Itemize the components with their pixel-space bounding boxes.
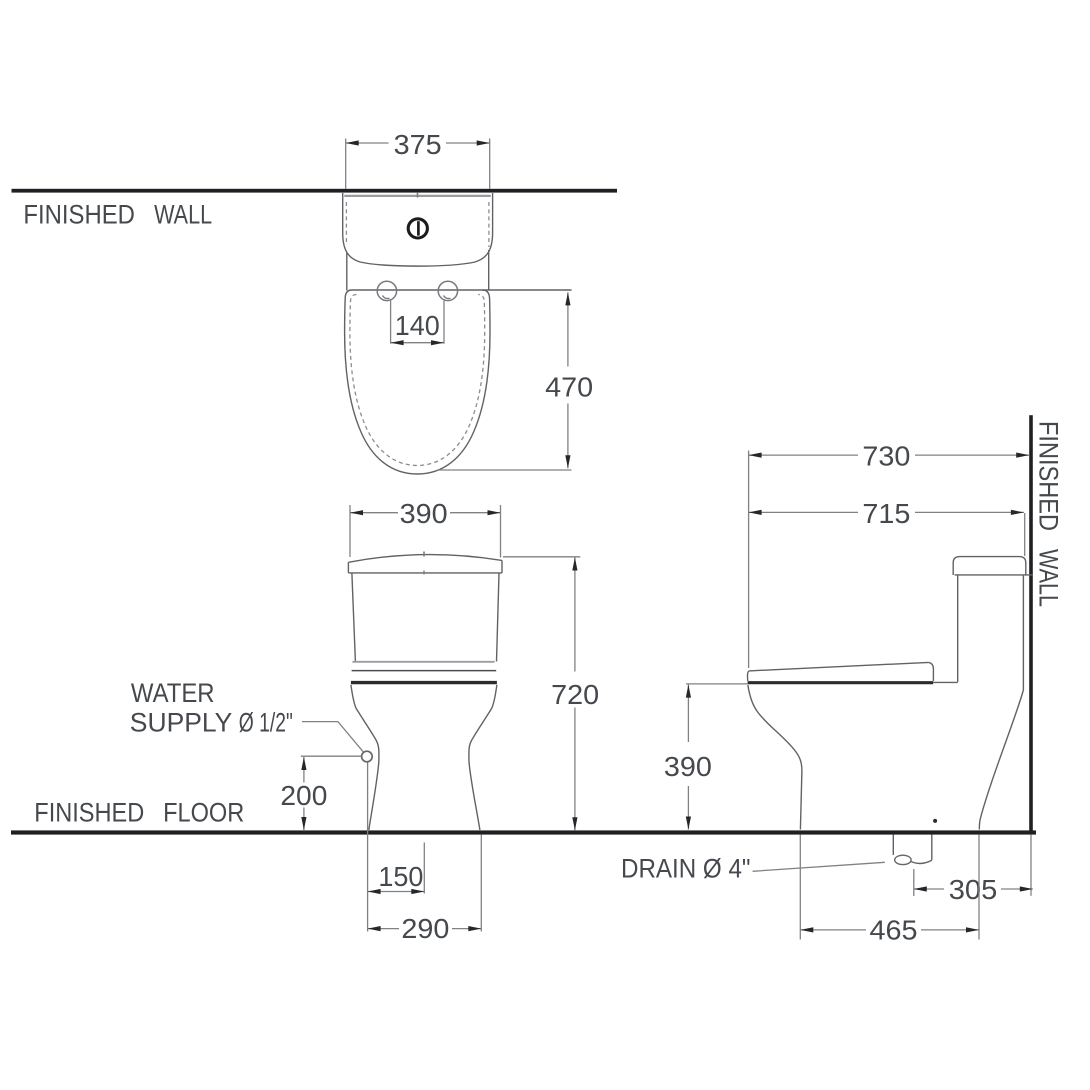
svg-text:FLOOR: FLOOR [163,798,244,828]
svg-text:390: 390 [400,498,448,529]
svg-text:FINISHED: FINISHED [34,798,144,828]
svg-text:730: 730 [862,441,910,472]
svg-text:WATER: WATER [131,678,215,708]
svg-text:390: 390 [664,751,712,782]
svg-text:DRAIN Ø 4": DRAIN Ø 4" [621,853,751,883]
svg-text:WALL: WALL [154,200,212,230]
svg-text:WALL: WALL [1034,549,1064,607]
svg-text:465: 465 [870,915,918,946]
svg-text:SUPPLY: SUPPLY [130,708,233,738]
svg-text:715: 715 [862,498,910,529]
svg-text:FINISHED: FINISHED [23,200,134,230]
svg-text:470: 470 [545,371,593,402]
svg-text:FINISHED: FINISHED [1034,421,1064,531]
svg-text:140: 140 [395,310,440,341]
svg-text:Ø 1/2": Ø 1/2" [239,708,293,738]
svg-text:200: 200 [280,780,327,811]
svg-text:305: 305 [949,874,998,905]
svg-text:720: 720 [551,679,599,710]
svg-text:150: 150 [378,861,423,892]
svg-text:290: 290 [401,913,449,944]
svg-text:375: 375 [394,129,442,160]
